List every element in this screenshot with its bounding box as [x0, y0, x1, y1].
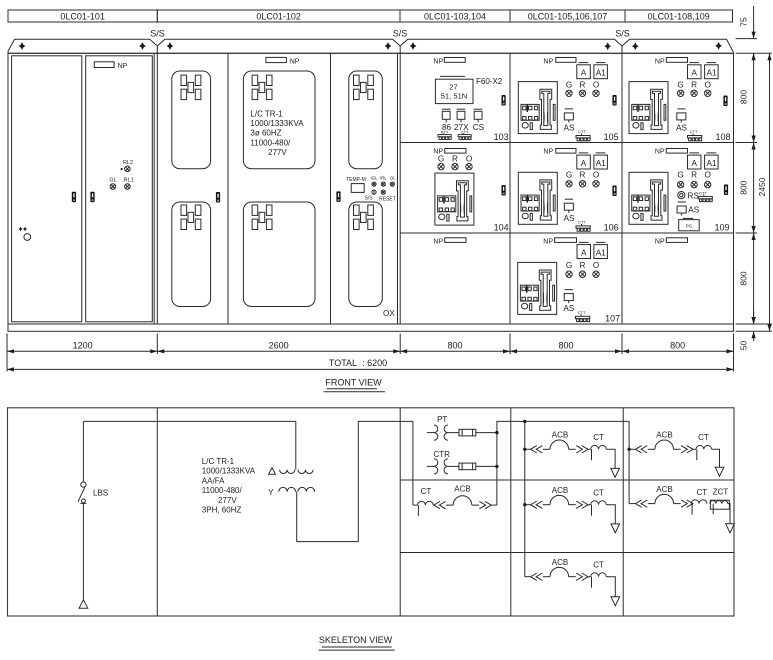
- lamp R cell 108: [691, 80, 697, 96]
- svg-text:G: G: [438, 155, 444, 164]
- svg-text:G: G: [566, 171, 572, 180]
- svg-text:CTT: CTT: [578, 129, 586, 134]
- dimension 800 col3: [622, 340, 734, 351]
- svg-text:FRONT VIEW: FRONT VIEW: [325, 378, 382, 388]
- svg-text:800: 800: [447, 340, 462, 350]
- svg-text:S/S: S/S: [393, 29, 408, 39]
- svg-text:PTT: PTT: [441, 130, 449, 135]
- wire transformer secondary to main ACB: [297, 421, 413, 541]
- node bus tap column2: [523, 420, 526, 423]
- feeder branch ACB 105: [525, 431, 588, 453]
- lamp R cell 105: [579, 80, 585, 96]
- svg-text:NP: NP: [433, 238, 443, 245]
- svg-text:ACB: ACB: [656, 431, 672, 440]
- pushbutton A1 cell 106: [594, 153, 608, 169]
- door handle 101 right: [90, 192, 94, 203]
- svg-text:O: O: [705, 80, 711, 89]
- node branch 106: [523, 503, 526, 506]
- svg-text:AS: AS: [676, 124, 687, 133]
- load break switch LBS: [78, 482, 86, 503]
- door handle 103: [502, 95, 506, 106]
- panel label box 0LC01-103,104: [400, 10, 510, 22]
- title SKELETON VIEW: [319, 635, 395, 650]
- title FRONT VIEW: [324, 378, 386, 392]
- feeder branch ACB 108: [629, 431, 693, 453]
- temperature meter TEMP-M: [346, 177, 366, 192]
- svg-text:0LC01-108,109: 0LC01-108,109: [648, 11, 710, 21]
- svg-text:277V: 277V: [268, 148, 287, 157]
- transformer TR-1 secondary wye winding: [268, 487, 314, 496]
- svg-text:RS: RS: [688, 191, 700, 200]
- skeleton divider LBS/TR: [156, 408, 158, 616]
- svg-text:A1: A1: [596, 69, 606, 78]
- svg-text:CT: CT: [696, 488, 707, 497]
- wire incoming feeder to transformer primary: [83, 421, 295, 469]
- svg-text:0LC01-103,104: 0LC01-103,104: [424, 11, 486, 21]
- key lock cabinet 101: [18, 227, 30, 241]
- lamp R cell 107: [579, 261, 585, 277]
- lamp G cell 107: [566, 261, 572, 277]
- svg-text:ACB: ACB: [454, 485, 470, 494]
- svg-text:A: A: [581, 248, 587, 257]
- svg-text:AS: AS: [688, 206, 699, 215]
- pushbutton A1 cell 107: [594, 242, 608, 258]
- vent louver panel 102 section1 lower: [172, 202, 211, 307]
- lamp G cell 108: [677, 80, 683, 96]
- CT test terminal CTT cell 103: [458, 130, 471, 140]
- svg-text:NP: NP: [655, 238, 665, 245]
- current transformer CT 107: [588, 560, 606, 587]
- nameplate NP cell 109: [655, 149, 688, 156]
- svg-text:R: R: [580, 80, 586, 89]
- svg-text:AS: AS: [563, 304, 574, 313]
- door handle 102 section1: [216, 192, 220, 203]
- nameplate NP cell row3 col1: [433, 238, 466, 246]
- panel label box 0LC01-108,109: [625, 10, 733, 22]
- svg-text:1000/1333KVA: 1000/1333KVA: [202, 467, 256, 476]
- CT test terminal CTT cell 109 beside RS: [698, 191, 712, 202]
- svg-text:CT: CT: [593, 560, 604, 569]
- wire and load arrow 109: [726, 504, 735, 533]
- drawout air circuit breaker cell 108: [629, 82, 668, 134]
- node branch 108: [627, 448, 630, 451]
- svg-text:R: R: [580, 261, 586, 270]
- CT test terminal CTT cell 108: [688, 129, 702, 141]
- vent louver panel 102 section3 upper: [349, 71, 383, 169]
- svg-text:NP: NP: [290, 59, 300, 66]
- pushbutton A cell 109: [688, 153, 702, 169]
- transformer TR-1 primary delta winding: [269, 468, 314, 475]
- svg-text:CTR: CTR: [433, 450, 450, 459]
- vent louver panel 102 section3 lower: [349, 202, 383, 307]
- svg-text:CTT: CTT: [699, 191, 707, 196]
- pushbutton A cell 107: [577, 242, 591, 258]
- lamp R cell 109: [691, 171, 697, 188]
- svg-text:A: A: [691, 69, 697, 78]
- cabinet body outline: [8, 53, 734, 324]
- lamp GL: [109, 178, 116, 190]
- svg-text:3ø 60HZ: 3ø 60HZ: [250, 129, 281, 138]
- zero sequence CT ZCT 109: [710, 487, 730, 514]
- current transformer CT main: [413, 487, 434, 516]
- door handle 108: [723, 96, 727, 107]
- svg-text:SKELETON VIEW: SKELETON VIEW: [319, 635, 393, 645]
- svg-text:RL2: RL2: [123, 160, 133, 166]
- door handle 106: [612, 186, 616, 197]
- svg-text:PT: PT: [437, 415, 447, 424]
- svg-text:800: 800: [558, 340, 573, 350]
- dimension 2600: [157, 340, 400, 351]
- svg-text:800: 800: [670, 340, 685, 350]
- vent louver panel 102 section2 lower: [243, 202, 315, 307]
- svg-text:ACB: ACB: [552, 486, 568, 495]
- svg-text:A: A: [581, 159, 587, 168]
- svg-text:0LC01-101: 0LC01-101: [60, 11, 105, 21]
- lamp G cell 105: [566, 80, 572, 96]
- svg-text:TEMP-M: TEMP-M: [346, 177, 366, 183]
- control switch 27X: [454, 109, 469, 132]
- door handle 101 left: [72, 192, 76, 203]
- svg-text:AS: AS: [564, 124, 575, 133]
- pressure gauge box PG cell 109: [679, 218, 700, 230]
- svg-text:CS: CS: [473, 123, 485, 132]
- wire ACB to main bus riser: [491, 504, 497, 506]
- svg-text:1200: 1200: [73, 340, 93, 350]
- svg-text:ACB: ACB: [552, 431, 568, 440]
- dimension 800 col2: [510, 340, 622, 351]
- feeder riser column2: [524, 421, 526, 576]
- svg-text:106: 106: [604, 223, 619, 233]
- dimension 800 row2: [739, 143, 754, 234]
- feeder branch ACB 107: [525, 558, 588, 580]
- drawout air circuit breaker cell 107: [518, 262, 557, 314]
- skeleton grid row divider 2: [400, 552, 734, 554]
- svg-text:NP: NP: [655, 149, 665, 156]
- vent louver panel 102 section1 upper: [172, 71, 211, 169]
- potential transformer PT branch: [427, 415, 448, 440]
- dimension 800 row1: [739, 53, 754, 142]
- nameplate NP cabinet 101: [94, 62, 127, 70]
- svg-text:800: 800: [739, 180, 749, 194]
- svg-text:L/C TR-1: L/C TR-1: [250, 110, 283, 119]
- lamp O cell 105: [593, 80, 599, 96]
- cabinet 102 right wall double line: [397, 53, 399, 324]
- svg-text:ZCT: ZCT: [713, 487, 729, 496]
- svg-text:A1: A1: [706, 69, 716, 78]
- svg-text:A: A: [691, 159, 697, 168]
- CT test terminal CTT cell 107: [576, 310, 590, 322]
- lamp IRL: [380, 175, 387, 186]
- svg-text:CT: CT: [698, 433, 709, 442]
- svg-text:IGL: IGL: [370, 175, 378, 180]
- dimension TOTAL 6200: [7, 358, 734, 369]
- nameplate NP cell 108: [655, 58, 688, 66]
- lamp O cell 108: [705, 80, 711, 96]
- svg-text:L/C TR-1: L/C TR-1: [202, 457, 235, 466]
- svg-text:OX: OX: [383, 309, 395, 318]
- lamp O cell 106: [593, 171, 599, 187]
- svg-text:ACB: ACB: [656, 485, 672, 494]
- svg-text:CTT: CTT: [461, 130, 469, 135]
- svg-text:CTT: CTT: [578, 220, 586, 225]
- svg-text:11000-480/: 11000-480/: [202, 486, 243, 495]
- pushbutton A cell 105: [577, 63, 591, 79]
- svg-text:O: O: [705, 171, 711, 180]
- svg-text:105: 105: [604, 132, 619, 142]
- cabinet 102 section divider 1: [227, 53, 229, 324]
- lamp G cell 104: [438, 155, 444, 170]
- fuse CTR: [448, 463, 497, 470]
- svg-text:NP: NP: [543, 238, 553, 245]
- svg-text:F60-X2: F60-X2: [476, 77, 503, 86]
- svg-text:G: G: [566, 80, 572, 89]
- svg-text:CT: CT: [593, 488, 604, 497]
- svg-text:S/S: S/S: [364, 196, 373, 202]
- fuse PT: [448, 429, 497, 436]
- svg-text:2450: 2450: [757, 177, 767, 196]
- wire LBS lower stem: [82, 503, 84, 599]
- auxiliary switch AS cell 106: [564, 199, 575, 223]
- svg-text:R: R: [452, 155, 458, 164]
- wire and load arrow 106: [606, 505, 619, 533]
- panel label box 0LC01-105,106,107: [510, 10, 625, 22]
- node PT to bus: [495, 431, 498, 434]
- current transformer CT 109: [691, 488, 707, 514]
- svg-text:AA/FA: AA/FA: [202, 476, 225, 485]
- right grid row divider 1: [400, 142, 733, 144]
- lamp RL2: [120, 160, 133, 172]
- wire LBS upper stem: [82, 421, 84, 482]
- node branch 105: [523, 448, 526, 451]
- svg-text:104: 104: [494, 223, 509, 233]
- wire and load arrow 108: [712, 449, 724, 476]
- cabinet base band 50mm: [8, 324, 734, 331]
- current transformer CT 106: [588, 488, 606, 515]
- door handle 102 section3: [336, 191, 340, 202]
- right grid row divider 2: [400, 232, 733, 234]
- dimension 75 top strip: [739, 6, 754, 39]
- right side dimension extension lines: [736, 39, 773, 332]
- nameplate NP cell 103: [433, 58, 465, 66]
- svg-text:75: 75: [739, 17, 749, 27]
- svg-text:G: G: [677, 171, 683, 180]
- svg-text:2600: 2600: [269, 340, 289, 350]
- skeleton view outer box: [8, 408, 735, 616]
- reset device RS with indicator: [678, 191, 700, 200]
- reset pushbutton RESET: [379, 190, 396, 202]
- svg-text:CTT: CTT: [578, 310, 586, 315]
- current transformer CT 105: [588, 433, 606, 460]
- right grid column divider 1: [509, 53, 511, 324]
- svg-text:108: 108: [715, 132, 730, 142]
- nameplate NP cabinet 102: [266, 57, 300, 65]
- svg-text:A1: A1: [706, 159, 716, 168]
- svg-text:S/S: S/S: [615, 29, 630, 39]
- nameplate NP cell 106: [543, 149, 576, 156]
- svg-text:NP: NP: [655, 58, 665, 65]
- drawout air circuit breaker cell 105: [518, 82, 557, 134]
- svg-text:GL: GL: [109, 178, 116, 184]
- skeleton divider TR/grid: [399, 408, 401, 616]
- svg-text:G: G: [677, 80, 683, 89]
- door handle 109: [724, 185, 728, 196]
- svg-text:O: O: [593, 171, 599, 180]
- svg-text:50: 50: [739, 341, 749, 351]
- svg-text:R: R: [580, 171, 586, 180]
- svg-text:800: 800: [739, 271, 749, 285]
- nameplate NP cell row3 col3: [655, 238, 688, 246]
- pushbutton A1 cell 105: [594, 63, 608, 79]
- svg-text:S/S: S/S: [150, 29, 165, 39]
- current transformer CT 108: [693, 433, 712, 460]
- drawout air circuit breaker cell 109: [629, 172, 668, 224]
- svg-text:R: R: [691, 171, 697, 180]
- svg-text:0LC01-105,106,107: 0LC01-105,106,107: [528, 11, 608, 21]
- svg-text:800: 800: [739, 90, 749, 104]
- auxiliary switch AS cell 107: [563, 290, 574, 313]
- svg-text:11000-480/: 11000-480/: [250, 138, 291, 147]
- dimension 2450 overall height: [757, 53, 770, 331]
- pushbutton A1 cell 108: [705, 63, 719, 79]
- lamp O cell 107: [593, 261, 599, 277]
- roof lifting eye diamonds: [19, 42, 26, 50]
- lamp R cell 104: [452, 155, 458, 170]
- svg-text:TOTAL : 6200: TOTAL : 6200: [329, 358, 387, 368]
- pushbutton A cell 106: [577, 153, 591, 169]
- svg-text:109: 109: [714, 223, 729, 233]
- nameplate NP cell 104: [433, 149, 466, 156]
- control switch CS: [473, 109, 485, 132]
- protection relay F60-X2 with functions 27 51 51N: [435, 76, 473, 103]
- cable termination triangle: [79, 600, 88, 608]
- panel label box 0LC01-102: [157, 10, 400, 22]
- feeder branch ACB 109: [629, 485, 693, 507]
- lamp G cell 109: [677, 171, 683, 188]
- dimension 50 base: [739, 311, 754, 350]
- vent louver panel 102 section2 upper with transformer nameplate text: [243, 71, 315, 169]
- cabinet 101 left door: [12, 56, 82, 322]
- svg-text:NP: NP: [118, 63, 128, 70]
- auxiliary switch AS cell 109: [677, 202, 700, 216]
- node CTR to bus: [495, 465, 498, 468]
- door handle 105: [612, 95, 616, 106]
- svg-text:51, 51N: 51, 51N: [441, 92, 468, 101]
- svg-text:CT: CT: [421, 487, 432, 496]
- pushbutton A1 cell 109: [705, 153, 719, 169]
- feeder branch ACB 106: [525, 486, 588, 508]
- CT test terminal CTT cell 105: [576, 129, 590, 141]
- lamp RL1: [124, 178, 134, 190]
- wire and load arrow 107: [606, 577, 619, 606]
- drawout air circuit breaker cell 104: [435, 173, 474, 225]
- right grid column divider 2: [621, 53, 623, 324]
- PT test terminal PTT: [438, 130, 451, 140]
- lamp G cell 106: [566, 171, 572, 187]
- svg-text:NP: NP: [543, 149, 553, 156]
- transformer rating text block: [202, 457, 256, 515]
- svg-text:PG: PG: [686, 224, 693, 229]
- selector switch S/S small: [364, 190, 376, 202]
- svg-text:CT: CT: [593, 433, 604, 442]
- svg-text:CTT: CTT: [690, 129, 698, 134]
- svg-text:O: O: [593, 80, 599, 89]
- svg-text:103: 103: [494, 132, 509, 142]
- control transformer CTR branch: [427, 450, 450, 474]
- svg-text:27: 27: [449, 82, 457, 91]
- svg-text:RL1: RL1: [124, 178, 134, 184]
- lamp R cell 106: [579, 171, 585, 187]
- auxiliary switch AS cell 108: [676, 109, 687, 133]
- svg-text:A: A: [581, 69, 587, 78]
- svg-text:RESET: RESET: [379, 196, 396, 202]
- svg-text:OL: OL: [390, 175, 396, 180]
- nameplate NP cell 107: [543, 238, 576, 246]
- dimension 1200: [7, 340, 157, 351]
- svg-text:3PH, 60HZ: 3PH, 60HZ: [202, 506, 242, 515]
- svg-text:G: G: [566, 261, 572, 270]
- lamp O cell 104: [466, 155, 472, 170]
- skeleton grid column divider 1: [510, 408, 512, 616]
- cabinet 102 section divider 2: [330, 53, 332, 324]
- svg-text:0LC01-102: 0LC01-102: [256, 11, 301, 21]
- svg-text:ACB: ACB: [552, 558, 568, 567]
- svg-text:107: 107: [605, 314, 620, 324]
- dimension extension lines bottom: [7, 334, 734, 372]
- svg-text:1000/1333KVA: 1000/1333KVA: [250, 119, 304, 128]
- svg-text:A1: A1: [596, 159, 606, 168]
- lamp OL: [390, 175, 396, 186]
- pushbutton A cell 108: [688, 63, 702, 79]
- svg-text:NP: NP: [543, 58, 553, 65]
- svg-text:O: O: [593, 261, 599, 270]
- control switch 86: [442, 109, 452, 132]
- lamp O cell 109: [705, 171, 711, 188]
- dimension 800 col1: [400, 340, 510, 351]
- main bus riser and horizontal bus: [497, 421, 629, 505]
- skeleton grid row divider 1: [400, 479, 734, 481]
- svg-text:R: R: [691, 80, 697, 89]
- drawout air circuit breaker cell 106: [518, 172, 557, 224]
- cabinet 101 right wall double line: [153, 53, 155, 324]
- cabinet roof band with chamfered ends and S/S notches: [8, 39, 734, 53]
- panel label row box 0LC01-101: [8, 10, 157, 22]
- cabinet 101 right door: [86, 56, 153, 322]
- wire and load arrow 105: [606, 449, 619, 477]
- CT test terminal CTT cell 106: [576, 220, 590, 232]
- dimension 800 row3: [739, 233, 754, 324]
- svg-text:A1: A1: [596, 248, 606, 257]
- main air circuit breaker ACB drawout: [434, 485, 491, 509]
- lamp IGL: [370, 175, 378, 186]
- svg-text:AS: AS: [564, 214, 575, 223]
- svg-text:NP: NP: [433, 58, 443, 65]
- door handle 104: [502, 185, 506, 196]
- svg-text:LBS: LBS: [93, 488, 108, 497]
- auxiliary switch AS cell 105: [564, 109, 575, 133]
- svg-text:O: O: [466, 155, 472, 164]
- nameplate NP cell 105: [543, 58, 576, 66]
- svg-text:IRL: IRL: [380, 175, 387, 180]
- skeleton grid column divider 2: [622, 408, 624, 616]
- svg-text:Y: Y: [268, 488, 274, 497]
- svg-text:277V: 277V: [218, 496, 237, 505]
